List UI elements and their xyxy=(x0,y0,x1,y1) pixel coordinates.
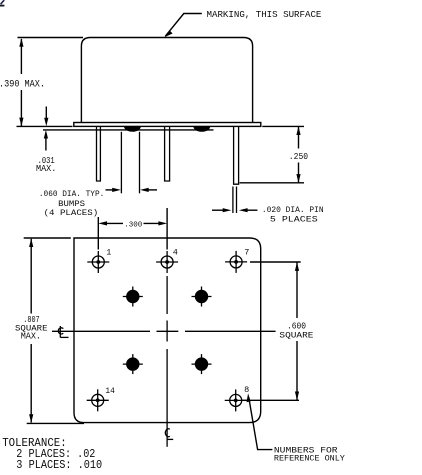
flange (base plate, side view) xyxy=(74,123,261,127)
centerline symbol (left) xyxy=(58,326,68,338)
svg-text:4: 4 xyxy=(173,247,178,257)
horizontal centerline xyxy=(52,330,276,332)
svg-text:MARKING, THIS SURFACE: MARKING, THIS SURFACE xyxy=(207,9,322,20)
dimension .600 SQUARE xyxy=(241,262,313,400)
svg-text:14: 14 xyxy=(105,386,114,396)
bump (side view, right) xyxy=(193,126,210,131)
svg-text:(4 PLACES): (4 PLACES) xyxy=(44,208,99,218)
vertical centerline xyxy=(166,276,168,447)
svg-text:7: 7 xyxy=(244,247,249,257)
centerline symbol (bottom) xyxy=(165,429,173,440)
page-number fragment "2" top-left corner xyxy=(0,0,4,6)
dimension .300 xyxy=(98,208,167,250)
pin 4 (side view, center) xyxy=(165,127,170,181)
svg-text:.300: .300 xyxy=(124,221,143,229)
bump (bottom view, top-left) xyxy=(123,287,143,307)
svg-text:5 PLACES: 5 PLACES xyxy=(270,216,318,225)
svg-text:3 PLACES: .010: 3 PLACES: .010 xyxy=(16,458,102,472)
bump (side view, left) xyxy=(124,126,141,131)
bump (bottom view, top-right) xyxy=(192,287,212,307)
bottom view outline (rounded square) xyxy=(74,238,261,423)
seating plane extension line xyxy=(17,125,73,127)
svg-text:8: 8 xyxy=(244,385,249,395)
pin 14 (bottom view) xyxy=(87,386,115,411)
svg-text:.250: .250 xyxy=(289,152,308,162)
pin 7/8 (side view, right) xyxy=(234,127,239,185)
svg-text:.390 MAX.: .390 MAX. xyxy=(0,79,45,91)
leader: MARKING, THIS SURFACE xyxy=(164,9,321,37)
svg-text:MAX.: MAX. xyxy=(36,163,56,174)
wire: top extension line at package top xyxy=(18,37,84,39)
svg-text:SQUARE: SQUARE xyxy=(279,330,313,340)
pin 4 (bottom view) xyxy=(156,247,178,273)
bump (bottom view, bottom-left) xyxy=(123,354,143,374)
note: TOLERANCE xyxy=(2,436,102,472)
dimension .250 xyxy=(240,126,308,183)
leader: NUMBERS FOR REFERENCE ONLY xyxy=(247,393,346,463)
dimension .807 SQUARE MAX. xyxy=(15,238,84,423)
pin 8 (bottom view) xyxy=(225,385,250,411)
svg-text:.020 DIA. PIN: .020 DIA. PIN xyxy=(262,206,324,215)
pin 1/14 (side view, left) xyxy=(97,127,101,181)
dimension .060 DIA. TYP. BUMPS (4 PLACES) xyxy=(39,132,157,218)
svg-text:MAX.: MAX. xyxy=(21,332,41,342)
package body (side view) xyxy=(81,38,252,123)
svg-text:REFERENCE ONLY: REFERENCE ONLY xyxy=(274,454,346,464)
bump-bottom extension line xyxy=(43,129,214,131)
dimension .020 DIA. PIN 5 PLACES xyxy=(212,187,324,225)
bump (bottom view, bottom-right) xyxy=(192,354,212,374)
svg-text:.060 DIA. TYP.: .060 DIA. TYP. xyxy=(39,190,104,199)
dimension .390 MAX. xyxy=(0,38,45,126)
dimension .031 MAX. xyxy=(36,107,56,175)
pin 1 (bottom view) xyxy=(87,247,111,273)
svg-text:1: 1 xyxy=(106,247,111,257)
pin 7 (bottom view) xyxy=(225,247,249,273)
